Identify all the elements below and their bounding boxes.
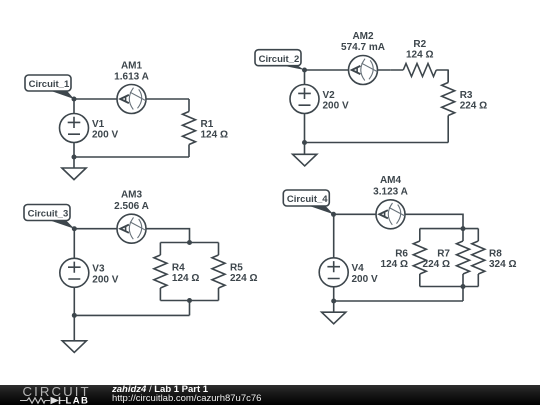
svg-text:AM3: AM3 — [121, 190, 143, 201]
footer url text — [112, 393, 261, 404]
svg-text:124 Ω: 124 Ω — [201, 130, 228, 141]
label AM1 — [114, 60, 149, 82]
svg-text:R2: R2 — [413, 39, 426, 50]
label R3 — [460, 90, 487, 112]
svg-text:AM4: AM4 — [380, 175, 402, 186]
node dot circuit 4 bus bottom — [461, 284, 466, 289]
ammeter AM3 — [117, 214, 146, 243]
node dot circuit 4 bottom — [331, 299, 336, 304]
node dot circuit 1 bottom — [72, 155, 77, 160]
node dot circuit 3 bus top — [187, 240, 192, 245]
svg-text:324 Ω: 324 Ω — [489, 259, 516, 270]
svg-text:R8: R8 — [489, 248, 502, 259]
svg-text:200 V: 200 V — [92, 274, 118, 285]
svg-text:200 V: 200 V — [323, 101, 349, 112]
resistor R3 — [442, 70, 455, 128]
label R6 — [381, 248, 409, 270]
wire: circuit 3 bottom rail + V3 stubs — [74, 229, 189, 316]
wire: circuit 4 bottom bus — [420, 287, 479, 302]
svg-text:574.7 mA: 574.7 mA — [341, 42, 385, 53]
resistor R1 — [183, 99, 196, 157]
wire: circuit 4 top bus — [420, 228, 479, 230]
svg-text:R6: R6 — [395, 248, 408, 259]
ammeter AM4 — [376, 200, 405, 229]
node dot circuit 2 top — [302, 68, 307, 73]
flag Circuit_4 — [283, 190, 333, 214]
svg-text:AM2: AM2 — [352, 31, 374, 42]
wire: circuit 4 top rail — [334, 214, 464, 228]
svg-text:Circuit_3: Circuit_3 — [28, 209, 69, 220]
svg-text:R7: R7 — [437, 248, 450, 259]
ammeter AM1 — [117, 85, 146, 114]
svg-text:Circuit_2: Circuit_2 — [259, 54, 300, 65]
node dot circuit 4 top — [331, 212, 336, 217]
node dot circuit 4 bus top — [461, 226, 466, 231]
svg-text:R4: R4 — [172, 262, 185, 273]
label R1 — [201, 119, 228, 141]
flag Circuit_3 — [24, 205, 74, 229]
label AM2 — [341, 31, 385, 53]
svg-text:V2: V2 — [323, 90, 336, 101]
label R2 — [406, 39, 433, 61]
wire: circuit 1 top rail — [74, 98, 189, 100]
node dot circuit 3 bus bottom — [187, 298, 192, 303]
flag Circuit_2 — [255, 50, 305, 70]
svg-text:Circuit_4: Circuit_4 — [287, 194, 328, 205]
flag Circuit_1 — [25, 75, 74, 99]
label V4 — [352, 263, 378, 285]
label R8 — [489, 248, 516, 270]
svg-text:200 V: 200 V — [92, 130, 118, 141]
wire: circuit 4 bottom rail + V4 stubs — [334, 214, 463, 301]
CircuitLab logo — [0, 385, 100, 405]
voltage source V4 — [319, 258, 348, 287]
voltage source V1 — [60, 114, 89, 143]
node dot circuit 3 top — [72, 226, 77, 231]
label AM4 — [373, 175, 408, 197]
ground (circuit 1) — [62, 157, 86, 180]
svg-text:1.613 A: 1.613 A — [114, 72, 149, 83]
ground (circuit 4) — [322, 301, 346, 324]
svg-text:R1: R1 — [201, 119, 214, 130]
wire: circuit 1 bottom rail — [74, 99, 189, 157]
wire: circuit 3 bottom bus — [160, 301, 218, 316]
wire: circuit 2 top rail — [305, 69, 391, 71]
resistor R8 — [472, 229, 485, 287]
voltage source V2 — [290, 85, 319, 114]
label AM3 — [114, 190, 149, 212]
svg-text:V1: V1 — [92, 119, 105, 130]
resistor R2 — [391, 64, 449, 77]
svg-text:224 Ω: 224 Ω — [423, 259, 450, 270]
node dot circuit 1 top — [72, 97, 77, 102]
wire: circuit 2 right rail — [447, 70, 449, 143]
node dot circuit 3 bottom — [72, 313, 77, 318]
footer title text — [112, 384, 208, 395]
resistor R7 — [457, 229, 470, 287]
label V3 — [92, 264, 118, 286]
wire: circuit 3 top bus — [160, 242, 218, 244]
wire: circuit 2 bottom rail + V2 stubs — [305, 70, 449, 143]
svg-text:V3: V3 — [92, 264, 105, 275]
ground (circuit 3) — [62, 315, 86, 352]
label V1 — [92, 119, 118, 141]
node dot circuit 2 bottom — [302, 140, 307, 145]
svg-text:LAB: LAB — [66, 396, 90, 405]
label R5 — [230, 262, 257, 284]
svg-text:224 Ω: 224 Ω — [230, 273, 257, 284]
resistor R5 — [212, 243, 225, 301]
footer bar — [0, 385, 540, 405]
svg-text:Circuit_1: Circuit_1 — [29, 79, 70, 90]
svg-text:3.123 A: 3.123 A — [373, 187, 408, 198]
label R7 — [423, 248, 451, 270]
ground (circuit 2) — [293, 143, 317, 166]
svg-text:224 Ω: 224 Ω — [460, 101, 487, 112]
svg-text:2.506 A: 2.506 A — [114, 201, 149, 212]
wire: circuit 3 top rail — [74, 229, 189, 243]
label R4 — [172, 262, 199, 284]
svg-text:AM1: AM1 — [121, 60, 143, 71]
resistor R6 — [413, 229, 426, 287]
voltage source V3 — [60, 258, 89, 287]
svg-text:124 Ω: 124 Ω — [381, 259, 408, 270]
label V2 — [323, 90, 349, 112]
svg-text:200 V: 200 V — [352, 274, 378, 285]
svg-text:124 Ω: 124 Ω — [406, 50, 433, 61]
resistor R4 — [154, 243, 167, 301]
svg-text:R3: R3 — [460, 90, 473, 101]
svg-text:V4: V4 — [352, 263, 365, 274]
svg-text:R5: R5 — [230, 262, 243, 273]
ammeter AM2 — [349, 56, 378, 85]
svg-text:124 Ω: 124 Ω — [172, 273, 199, 284]
